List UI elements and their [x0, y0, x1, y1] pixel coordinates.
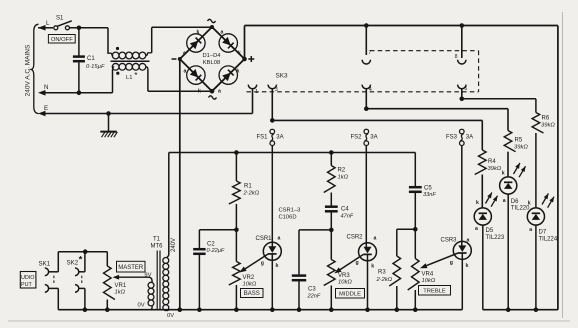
bridge vertex dots — [210, 25, 214, 29]
svg-text:a: a — [475, 226, 478, 232]
junction CSR1 k bus — [270, 307, 275, 312]
svg-text:k: k — [197, 30, 200, 36]
diode D4 (bottom-right) — [219, 66, 237, 84]
wire SK1 riser up — [57, 252, 59, 272]
svg-text:0V: 0V — [138, 303, 145, 309]
phase dot L1 bottom — [116, 72, 119, 75]
junction pin3/FS1 — [270, 118, 275, 123]
junction CSR2 k bus — [365, 307, 370, 312]
capacitor C3 — [292, 274, 306, 277]
svg-text:SK3: SK3 — [276, 73, 289, 80]
SK1 gang dashes — [53, 276, 55, 285]
wire right bus — [557, 26, 559, 310]
phase dot L1 top — [116, 47, 119, 50]
label ~ bottom — [209, 96, 217, 99]
svg-text:7: 7 — [368, 50, 371, 56]
wire top bus — [245, 25, 558, 27]
LED D7 — [527, 208, 544, 225]
svg-text:k: k — [237, 69, 240, 75]
pin 8 — [461, 26, 463, 59]
wire CSR1 gate wiper — [242, 254, 269, 271]
svg-text:C106D: C106D — [279, 215, 297, 221]
svg-text:g: g — [356, 260, 359, 266]
svg-text:C3: C3 — [308, 287, 316, 293]
T1 240V winding — [167, 254, 169, 257]
svg-text:3: 3 — [275, 87, 278, 93]
svg-text:22nF: 22nF — [307, 294, 321, 300]
wire CSR2 gate wiper — [337, 255, 364, 273]
svg-text:C5: C5 — [424, 185, 432, 191]
wire D5 to bus — [482, 225, 484, 310]
junction E/ground — [106, 111, 111, 116]
svg-text:240V: 240V — [171, 238, 177, 252]
svg-text:39kΩ: 39kΩ — [488, 166, 502, 172]
wire bridge+ riser — [244, 26, 246, 60]
label plus — [248, 58, 254, 60]
svg-text:PUT: PUT — [21, 282, 32, 288]
diode D2 (top-right) — [219, 34, 237, 52]
svg-text:a: a — [374, 236, 377, 242]
svg-text:2·2kΩ: 2·2kΩ — [376, 277, 393, 283]
wire feed drop to T1 240V — [168, 153, 170, 255]
wire R1 to VR2 — [235, 204, 237, 262]
svg-text:R4: R4 — [488, 159, 496, 165]
svg-text:ON/OFF: ON/OFF — [51, 37, 73, 43]
svg-text:0·15µF: 0·15µF — [86, 64, 105, 70]
svg-text:a: a — [183, 51, 186, 57]
potentiometer VR3 — [324, 260, 335, 286]
svg-text:VR3: VR3 — [338, 273, 350, 279]
svg-text:C4: C4 — [341, 207, 349, 213]
wire L1 top to bridge — [151, 27, 153, 53]
node E arrow — [42, 113, 253, 115]
junction pin4/FS2 — [364, 106, 369, 111]
svg-text:MT6: MT6 — [151, 244, 164, 250]
svg-text:39kΩ: 39kΩ — [514, 145, 528, 151]
svg-text:VR4: VR4 — [422, 272, 434, 278]
core L1 — [111, 60, 150, 62]
svg-text:3A: 3A — [466, 134, 473, 140]
svg-text:D6: D6 — [511, 199, 519, 205]
junction R3 bus — [395, 307, 400, 312]
svg-text:R5: R5 — [515, 138, 523, 144]
svg-text:k: k — [502, 171, 505, 177]
wire bridge minus drop — [179, 59, 181, 310]
wire CSR1 cathode — [271, 254, 273, 310]
junction VR4 bus — [413, 307, 418, 312]
svg-text:FS2: FS2 — [351, 134, 363, 140]
wire SK2 riser up — [84, 252, 86, 272]
svg-text:D7: D7 — [539, 230, 547, 236]
svg-text:10kΩ: 10kΩ — [243, 282, 257, 288]
svg-text:BASS: BASS — [244, 291, 260, 297]
diode D1 (top-left) — [187, 34, 205, 52]
wire feed drop to C5 — [414, 153, 416, 187]
wire SK2 riser down — [84, 288, 86, 309]
junction treble node — [413, 227, 418, 232]
wire D7 to bus — [535, 225, 537, 310]
svg-text:a: a — [221, 30, 224, 36]
svg-text:33nF: 33nF — [423, 192, 436, 198]
svg-text:1: 1 — [255, 89, 258, 95]
junction middle node — [329, 228, 334, 233]
svg-text:CSR1–3: CSR1–3 — [279, 208, 301, 214]
svg-text:a: a — [503, 198, 506, 204]
svg-text:1kΩ: 1kΩ — [115, 290, 126, 296]
svg-text:k: k — [476, 200, 479, 206]
fuse FS3 — [460, 129, 465, 134]
LED D7 arrows — [542, 194, 548, 205]
junction pin7 top — [364, 23, 369, 28]
wire FS1 to CSR1 anode — [271, 145, 273, 247]
wire D6 to bus — [507, 194, 509, 310]
svg-text:0·22µF: 0·22µF — [207, 248, 225, 254]
wire CSR3 gate wiper — [423, 253, 459, 267]
wire middle node to C3 — [299, 229, 331, 231]
svg-text:3A: 3A — [276, 134, 283, 140]
resistor R2 — [324, 166, 335, 193]
resistor R4 — [475, 150, 486, 174]
svg-text:FS3: FS3 — [446, 134, 458, 140]
svg-text:g: g — [261, 261, 264, 267]
diode D3 (bottom-left) — [187, 66, 205, 84]
svg-text:R6: R6 — [542, 116, 550, 122]
inductor L1 top coil — [112, 53, 114, 55]
svg-text:T1: T1 — [153, 237, 161, 243]
wire L1 bottom to bridge — [147, 69, 149, 91]
fuse FS1 — [270, 129, 275, 134]
svg-text:R2: R2 — [338, 168, 346, 174]
T1 core — [156, 251, 158, 310]
svg-text:E: E — [44, 105, 48, 112]
node N arrow — [42, 92, 113, 94]
svg-text:TIL223: TIL223 — [486, 235, 505, 241]
svg-text:8: 8 — [455, 54, 458, 60]
junction VR1 bottom — [105, 307, 110, 312]
svg-text:C2: C2 — [207, 241, 215, 247]
svg-text:*: * — [79, 255, 83, 266]
svg-text:D1–D4: D1–D4 — [202, 53, 221, 59]
potentiometer VR2 — [229, 262, 240, 285]
wire pin3 junction to R4 — [272, 119, 482, 121]
junction SK2 top — [83, 249, 88, 254]
wire feed to R1 — [235, 153, 237, 182]
svg-text:SK1: SK1 — [39, 261, 51, 268]
svg-text:4: 4 — [369, 87, 372, 93]
svg-text:0V: 0V — [167, 313, 174, 319]
potentiometer VR1 — [104, 266, 115, 299]
wire rail to VR1 — [106, 252, 108, 266]
wire bass node to C2 — [199, 229, 236, 231]
svg-text:10kΩ: 10kΩ — [338, 280, 352, 286]
wire S1 to corner — [69, 27, 108, 29]
junction R1 top — [234, 150, 239, 155]
label AUDIO INPUT box — [20, 272, 36, 289]
svg-text:L: L — [46, 20, 50, 27]
wire corner down to L1 — [107, 28, 109, 53]
wire pin4 junction to R5 — [366, 108, 508, 110]
svg-text:a: a — [184, 69, 187, 75]
junction C3 bus — [297, 307, 302, 312]
junction minus bus — [178, 307, 183, 312]
pin 3 — [268, 85, 276, 89]
svg-text:VR1: VR1 — [115, 283, 127, 289]
svg-text:CSR2: CSR2 — [347, 235, 364, 241]
label MIDDLE box — [336, 289, 365, 299]
wire feed to R2 — [330, 153, 332, 166]
svg-text:N: N — [44, 84, 48, 91]
junction VR2 bus — [234, 307, 239, 312]
svg-text:VR2: VR2 — [243, 275, 255, 281]
junction C1/N — [77, 91, 82, 96]
svg-text:39kΩ: 39kΩ — [541, 123, 555, 129]
svg-text:10kΩ: 10kΩ — [422, 278, 436, 284]
junction bass node — [234, 228, 239, 233]
T1 9V winding — [149, 277, 153, 282]
label ~ top — [208, 19, 216, 22]
pin 5 — [458, 85, 466, 89]
wire lamp bottom bus — [483, 309, 558, 311]
capacitor C5 — [409, 186, 422, 189]
connector SK3 dashed outline — [370, 50, 479, 52]
wire N to L1 bottom — [112, 70, 114, 93]
wire pin5 junction to R6 — [462, 98, 536, 100]
svg-text:UDIO: UDIO — [21, 275, 34, 281]
svg-text:SK2: SK2 — [67, 260, 79, 267]
svg-text:a: a — [467, 238, 470, 244]
capacitor C2 — [193, 248, 205, 251]
wire CSR2 cathode — [367, 255, 369, 310]
resistor R5 — [504, 131, 515, 152]
wire SK1 riser down — [57, 288, 59, 309]
svg-text:S1: S1 — [56, 16, 64, 22]
LED D6 — [500, 177, 517, 194]
page border bottom (faint) — [8, 320, 570, 322]
svg-text:k: k — [528, 201, 531, 207]
svg-text:2·2kΩ: 2·2kΩ — [243, 191, 260, 197]
svg-text:k: k — [238, 51, 241, 57]
wire FS2 to CSR2 anode — [365, 145, 367, 247]
inductor L1 bottom coil — [113, 67, 115, 70]
wire main 0V bus — [58, 309, 462, 311]
ground — [108, 114, 110, 132]
svg-text:CSR3: CSR3 — [441, 238, 458, 244]
junction VR3 bus — [329, 307, 334, 312]
junction D7 bus — [534, 307, 539, 312]
svg-text:9V: 9V — [144, 273, 151, 279]
svg-text:k: k — [466, 263, 469, 269]
page border right (faint) — [562, 12, 564, 318]
svg-text:TREBLE: TREBLE — [423, 288, 446, 294]
junction C2 bus — [197, 307, 202, 312]
svg-text:5: 5 — [464, 86, 467, 92]
node L arrow — [44, 27, 53, 29]
svg-text:a: a — [529, 227, 532, 233]
svg-text:C1: C1 — [87, 56, 95, 62]
svg-text:TIL224: TIL224 — [539, 236, 558, 242]
svg-text:L1: L1 — [126, 75, 132, 81]
resistor R3 — [389, 256, 400, 286]
resistor R6 — [532, 113, 543, 134]
wire R6 to D7 — [535, 133, 537, 208]
svg-text:a: a — [218, 89, 221, 95]
wire R4 to D5 — [481, 175, 483, 209]
resistor R1 — [229, 181, 240, 204]
junction SK2 bottom — [83, 307, 88, 312]
junction pin5/FS3 — [460, 97, 465, 102]
svg-text:3A: 3A — [370, 134, 377, 140]
fuse FS2 — [364, 129, 369, 134]
wire CSR3 cathode — [461, 253, 463, 310]
label BASS box — [241, 289, 264, 298]
pin 7 — [365, 26, 367, 56]
SK2 gang dashes — [81, 276, 83, 285]
brace 240V AC mains — [31, 24, 38, 113]
pin 4 — [362, 85, 370, 89]
junction D6 bus — [506, 307, 511, 312]
pin 1 — [248, 85, 256, 89]
capacitor C1 — [78, 29, 80, 56]
LED D5 arrows — [486, 193, 492, 204]
potentiometer VR4 — [408, 259, 419, 291]
wire FS3 to CSR3 anode — [461, 145, 463, 246]
label TREBLE box — [419, 286, 451, 296]
svg-text:KBL08: KBL08 — [203, 60, 220, 66]
wire treble node to R3 — [397, 228, 416, 230]
svg-text:k: k — [198, 89, 201, 95]
svg-text:R1: R1 — [244, 184, 252, 190]
thyristor CSR3 — [453, 241, 471, 259]
bridge diamond wires — [180, 27, 245, 91]
wire gate feed line — [169, 152, 415, 154]
capacitor C4 — [325, 205, 338, 208]
svg-text:47nF: 47nF — [341, 214, 354, 220]
junction pin8 top — [460, 23, 465, 28]
svg-text:R3: R3 — [378, 270, 386, 276]
label MASTER box — [117, 261, 146, 272]
thyristor CSR2 — [359, 243, 377, 261]
LED D5 — [474, 208, 491, 225]
switch S1 — [54, 26, 58, 30]
svg-text:1kΩ: 1kΩ — [338, 175, 349, 181]
junction S1/C1 — [77, 26, 82, 31]
wire R2 to C4 — [330, 193, 332, 206]
wire R5 to D6 — [507, 152, 509, 177]
svg-text:MASTER: MASTER — [118, 265, 144, 271]
label ON/OFF box — [48, 35, 75, 44]
label minus — [172, 58, 177, 60]
wire VR1 wiper from T1 — [115, 276, 149, 278]
svg-text:g: g — [450, 260, 453, 266]
svg-text:k: k — [276, 263, 279, 269]
svg-text:CSR1: CSR1 — [256, 236, 273, 242]
wire audio top rail — [58, 251, 107, 253]
svg-text:FS1: FS1 — [257, 134, 269, 140]
LED D6 arrows — [514, 163, 520, 174]
svg-text:k: k — [371, 264, 374, 270]
junction R2 top — [329, 150, 334, 155]
svg-text:a: a — [278, 236, 281, 242]
svg-text:240V A.C. MAINS: 240V A.C. MAINS — [25, 44, 32, 96]
svg-text:D5: D5 — [486, 228, 494, 234]
thyristor CSR1 — [263, 242, 281, 260]
svg-text:MIDDLE: MIDDLE — [339, 291, 361, 297]
